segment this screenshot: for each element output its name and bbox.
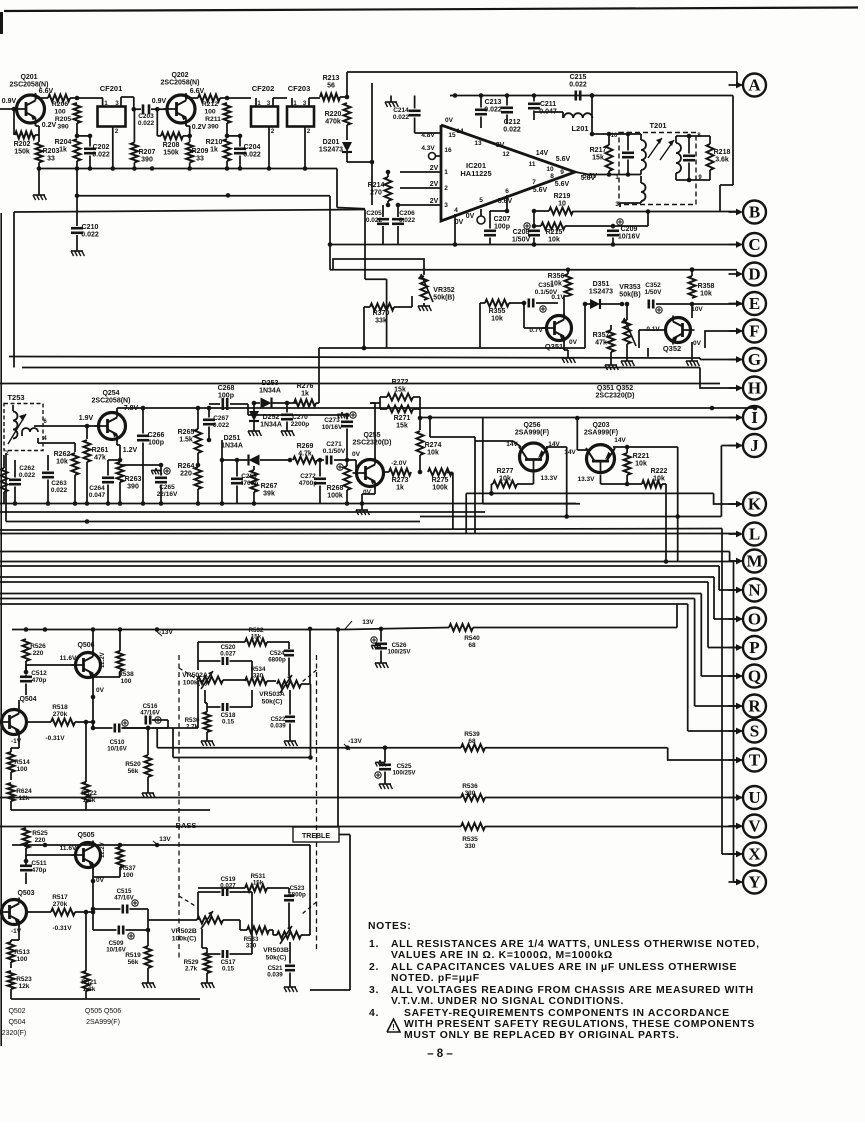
wire bus y383: [0, 383, 720, 385]
pot VR502B: [171, 911, 223, 942]
label Q505 Q506 types: [85, 1008, 121, 1026]
wire bus y566 to N: [0, 566, 743, 590]
ground R357: [605, 362, 618, 370]
wire D253: [252, 401, 296, 406]
wire R531: [198, 888, 289, 893]
svg-text:4.: 4.: [369, 1008, 379, 1019]
svg-text:8: 8: [550, 173, 554, 180]
wire bus y577 to O: [0, 577, 743, 619]
wire Q504 collector: [18, 700, 20, 708]
svg-text:F: F: [749, 322, 759, 341]
svg-text:2SA999(F): 2SA999(F): [584, 430, 618, 437]
resistor R267: [251, 470, 278, 498]
ground VR353: [621, 344, 634, 366]
wire R529: [206, 948, 208, 980]
wire T201 sec bot: [676, 179, 710, 181]
svg-text:Q254: Q254: [102, 390, 119, 397]
svg-text:C209: C209: [621, 226, 638, 233]
svg-text:3: 3: [444, 202, 448, 209]
svg-text:VR502B: VR502B: [171, 928, 197, 935]
svg-text:12.2V: 12.2V: [100, 842, 106, 858]
svg-text:C272: C272: [300, 473, 316, 480]
svg-text:Q506: Q506: [77, 642, 94, 649]
wire Q254 collector row: [117, 406, 757, 412]
resistor R220: [325, 103, 351, 126]
capacitor C264: [89, 458, 122, 504]
wire Q351 base: [524, 303, 546, 328]
wire Q504 emitter: [18, 736, 20, 748]
wire bus y521: [6, 519, 420, 524]
transistor Q506: [72, 651, 101, 680]
svg-text:2: 2: [444, 185, 448, 192]
text -0.31V b: [52, 925, 72, 932]
svg-text:2SC2058(N): 2SC2058(N): [92, 398, 131, 405]
notes text block: [368, 921, 760, 1041]
svg-text:Q503: Q503: [17, 890, 34, 897]
svg-text:5.6V: 5.6V: [498, 198, 513, 205]
resistor R204: [55, 139, 81, 161]
svg-text:-0.31V: -0.31V: [52, 925, 72, 932]
wire R514: [11, 748, 19, 780]
svg-text:5.6V: 5.6V: [533, 187, 548, 194]
svg-text:150k: 150k: [14, 149, 30, 156]
capacitor C517: [221, 950, 236, 973]
wire F hook: [705, 331, 743, 348]
ground Q255: [356, 507, 369, 515]
svg-text:100/25V: 100/25V: [387, 649, 411, 656]
svg-text:Q256: Q256: [523, 422, 540, 429]
text 0.7V: [529, 327, 543, 334]
svg-text:C211: C211: [540, 101, 556, 108]
svg-text:11.6V: 11.6V: [60, 655, 77, 662]
capacitor C526 elec: [371, 629, 412, 660]
svg-text:SAFETY-REQUIREMENTS COMPONENT: SAFETY-REQUIREMENTS COMPONENTS IN ACCORD…: [404, 1008, 730, 1019]
resistor R532: [245, 627, 267, 646]
svg-text:Q351 Q352: Q351 Q352: [597, 385, 633, 392]
svg-text:R526: R526: [30, 643, 46, 650]
svg-text:33: 33: [196, 156, 204, 163]
svg-text:220: 220: [33, 650, 44, 657]
svg-text:330: 330: [465, 843, 476, 850]
resistor R211: [205, 103, 230, 130]
svg-text:13.3V: 13.3V: [541, 475, 559, 482]
IC pin 14: [456, 128, 464, 135]
text 2V pin2: [430, 181, 439, 188]
svg-text:220: 220: [35, 837, 46, 844]
svg-text:R209: R209: [192, 148, 209, 155]
text 5.6V c: [555, 181, 570, 188]
dashed slant VR503A: [302, 655, 317, 950]
T253 tuning arrow: [8, 414, 26, 444]
svg-text:4.3V: 4.3V: [421, 145, 435, 152]
svg-text:R218: R218: [714, 149, 731, 156]
node R callout: [729, 695, 767, 718]
resistor R218: [707, 144, 731, 170]
svg-text:R213: R213: [323, 75, 340, 82]
svg-text:V: V: [748, 817, 761, 836]
svg-text:MUST ONLY BE REPLACED BY ORIGI: MUST ONLY BE REPLACED BY ORIGINAL PARTS.: [404, 1030, 679, 1041]
svg-text:R265: R265: [178, 429, 195, 436]
wire R264 down: [197, 489, 199, 504]
wire R358 top: [690, 267, 695, 276]
text 1.2V: [123, 447, 138, 454]
capacitor C351: [529, 282, 558, 308]
svg-text:ALL CAPACITANCES VALUES ARE I: ALL CAPACITANCES VALUES ARE IN μF UNLESS…: [391, 962, 737, 973]
svg-text:7: 7: [532, 179, 536, 186]
svg-text:R203: R203: [43, 148, 60, 155]
capacitor C515 series: [114, 888, 134, 914]
svg-text:3.6k: 3.6k: [715, 157, 729, 164]
IC pin 8: [550, 173, 554, 180]
svg-text:CF203: CF203: [288, 84, 311, 93]
text pin1 T201: [615, 175, 619, 181]
svg-text:R211: R211: [205, 116, 221, 123]
capacitor C516 series: [140, 703, 160, 725]
svg-text:!: !: [392, 1023, 395, 1032]
svg-text:0.15: 0.15: [222, 966, 235, 973]
svg-text:R264: R264: [178, 463, 195, 470]
IC pin 12: [502, 151, 510, 158]
wire R206 to node: [70, 96, 103, 101]
svg-text:C205: C205: [366, 210, 382, 217]
wire C516 right: [152, 720, 168, 728]
svg-text:C269: C269: [241, 473, 257, 480]
wire R525 down: [24, 848, 29, 863]
pot VR502A: [182, 671, 223, 689]
svg-text:K: K: [748, 495, 762, 514]
wire C516: [93, 717, 161, 728]
text 11.6V Q505: [60, 845, 77, 852]
svg-text:R217: R217: [590, 147, 607, 154]
resistor R521: [81, 971, 97, 993]
svg-text:0.15: 0.15: [222, 719, 235, 726]
wire R219: [532, 209, 651, 226]
svg-text:C212: C212: [504, 119, 521, 126]
svg-text:Q352: Q352: [663, 344, 681, 353]
wire R211 down: [225, 123, 230, 138]
resistor R215: [541, 223, 565, 244]
svg-text:10k: 10k: [491, 316, 503, 323]
svg-text:4: 4: [454, 207, 458, 214]
text 5.6V b: [583, 173, 598, 180]
wire C208 top: [532, 242, 537, 247]
resistor R213: [320, 75, 340, 101]
svg-text:16: 16: [444, 147, 452, 154]
capacitor C210: [71, 169, 99, 249]
svg-text:390: 390: [141, 157, 153, 164]
resistor R535: [461, 823, 485, 850]
transistor Q255: [353, 458, 384, 489]
capacitor C520: [220, 644, 236, 665]
svg-text:R513: R513: [14, 949, 30, 956]
svg-text:C267: C267: [213, 415, 229, 422]
node Y callout: [729, 871, 767, 894]
wire lower left bus: [11, 998, 200, 1000]
text -1V Q503: [11, 928, 22, 935]
svg-text:1k: 1k: [301, 391, 309, 398]
wire R517: [27, 910, 95, 915]
svg-text:1: 1: [444, 169, 448, 176]
wire R215: [532, 224, 616, 229]
svg-text:R262: R262: [54, 451, 71, 458]
text -2.0V: [391, 460, 407, 467]
ground R519: [142, 980, 155, 988]
wire R530: [205, 703, 207, 738]
svg-text:R539: R539: [464, 731, 480, 738]
svg-text:0.022: 0.022: [243, 152, 261, 159]
wire bus y512: [0, 511, 485, 513]
resistor R268: [327, 466, 351, 500]
svg-text:C203: C203: [138, 113, 154, 120]
resistor R518: [51, 704, 75, 726]
transistor Q203: [586, 445, 615, 475]
resistor R517: [51, 894, 75, 916]
resistor R522: [81, 782, 97, 804]
T201 tuning arrows: [648, 138, 674, 160]
svg-text:C210: C210: [82, 224, 99, 231]
label Q256: [515, 422, 549, 437]
wire emitter bus: [37, 166, 337, 171]
text 2V pin3: [430, 198, 439, 205]
text 0.1V Q352: [646, 326, 660, 333]
svg-text:15k: 15k: [592, 155, 604, 162]
wire bus y503 right: [483, 418, 580, 504]
text 10V Q352: [691, 306, 703, 313]
wire Q255 emitter: [362, 487, 375, 507]
capacitor C202: [84, 134, 110, 169]
svg-text:VALUES ARE IN Ω. K=1000Ω, M=: VALUES ARE IN Ω. K=1000Ω, M=1000kΩ: [391, 950, 613, 961]
text 5.6V apex: [581, 175, 596, 182]
svg-text:6.6V: 6.6V: [39, 88, 54, 95]
pin2 CF203: [305, 127, 311, 169]
svg-text:470p: 470p: [32, 867, 47, 874]
wire R209 down: [189, 163, 191, 169]
text 7.8V: [124, 405, 139, 412]
wire VR503B right: [301, 845, 310, 935]
resistor R262: [54, 451, 79, 475]
capacitor C352: [645, 282, 663, 309]
resistor R203: [36, 143, 60, 163]
label Q352: [663, 344, 681, 353]
wire R212 to node: [220, 96, 251, 101]
svg-text:14V: 14V: [564, 449, 576, 456]
text pin10 T201: [611, 133, 618, 139]
text pin6 T253: [43, 419, 47, 425]
capacitor C523: [284, 885, 306, 900]
pin16 circle: [429, 153, 442, 160]
wire Q256 emitter route: [546, 447, 569, 519]
svg-text:VR503A: VR503A: [259, 691, 285, 698]
wire R540 right: [473, 604, 677, 628]
svg-text:VR353: VR353: [619, 284, 641, 291]
svg-text:5: 5: [479, 197, 483, 204]
text pin8 T201: [697, 133, 701, 139]
wire node136b: [227, 135, 240, 137]
svg-text:-0.31V: -0.31V: [45, 735, 65, 742]
svg-text:Q505 Q506: Q505 Q506: [85, 1008, 121, 1015]
wire right outline T201: [720, 96, 733, 213]
wire R274 down: [418, 455, 423, 474]
wire R524 down: [10, 801, 12, 810]
node E callout: [729, 292, 767, 315]
pot VR503B: [263, 926, 301, 961]
wire Q351 collector: [564, 296, 568, 316]
wire R210: [226, 161, 228, 169]
node P callout: [729, 636, 767, 659]
wire R522: [84, 720, 89, 810]
wire Q505 base: [26, 855, 75, 861]
svg-text:0.022: 0.022: [213, 422, 230, 429]
svg-text:100k: 100k: [327, 493, 343, 500]
svg-text:C204: C204: [244, 144, 261, 151]
svg-text:C273: C273: [324, 417, 340, 424]
wire R273: [383, 471, 389, 473]
svg-text:R267: R267: [261, 483, 278, 490]
wire bus y533 full: [0, 533, 741, 535]
resistor R222: [642, 468, 667, 488]
wire R214 top: [386, 170, 391, 177]
wire bus y593 to Q: [0, 594, 743, 677]
svg-text:0V: 0V: [445, 117, 454, 124]
svg-text:4700p: 4700p: [240, 480, 258, 487]
IC pin 9: [560, 169, 564, 176]
pot VR503A: [259, 675, 301, 705]
wire D351 left node: [583, 302, 588, 348]
svg-text:10k: 10k: [635, 461, 647, 468]
resistor R355: [485, 300, 509, 323]
wire T hook: [668, 748, 743, 760]
wire bus A top: [347, 71, 737, 73]
svg-text:100: 100: [17, 956, 28, 963]
svg-text:47/16V: 47/16V: [114, 895, 134, 902]
wire C518: [207, 690, 252, 707]
wire R203 to gnd bus: [38, 163, 40, 169]
node M callout: [729, 550, 767, 573]
svg-text:R519: R519: [125, 952, 141, 959]
svg-text:470k: 470k: [325, 119, 341, 126]
svg-text:0.022: 0.022: [138, 120, 155, 127]
svg-text:0V: 0V: [455, 219, 464, 226]
svg-text:J: J: [750, 436, 759, 455]
T201 primary cap: [622, 132, 634, 177]
svg-text:6800p: 6800p: [288, 892, 306, 899]
wire Q202 collector bus: [186, 95, 198, 98]
svg-text:Q203: Q203: [592, 422, 609, 429]
svg-text:T: T: [749, 751, 761, 770]
text pin9 T201: [698, 175, 702, 181]
svg-text:2.: 2.: [369, 962, 379, 973]
text -13V arrow: [344, 738, 363, 750]
svg-text:1/50V: 1/50V: [512, 237, 531, 244]
text 6.6V Q202: [190, 88, 205, 95]
page number -8-: [427, 1048, 453, 1060]
svg-text:100: 100: [204, 108, 216, 115]
svg-text:1N34A: 1N34A: [221, 443, 243, 450]
label Q502 Q504: [2, 1008, 27, 1037]
svg-text:100p: 100p: [494, 224, 510, 231]
svg-text:C208: C208: [513, 229, 530, 236]
svg-text:13V: 13V: [159, 836, 171, 843]
svg-text:47k: 47k: [94, 455, 106, 462]
wire R537: [91, 843, 120, 878]
wire R217 bottom: [608, 171, 610, 175]
ground top IC: [385, 96, 398, 108]
svg-text:10k: 10k: [56, 459, 68, 466]
diode D201: [319, 139, 352, 154]
svg-text:D: D: [748, 265, 760, 284]
svg-text:11: 11: [529, 161, 536, 168]
text 13.3V Q203: [578, 476, 596, 483]
svg-text:R276: R276: [297, 383, 314, 390]
svg-text:C: C: [748, 235, 760, 254]
svg-text:T253: T253: [7, 393, 24, 402]
svg-text:R540: R540: [464, 635, 480, 642]
resistor R265: [178, 429, 202, 453]
T201 secondary cap: [683, 134, 695, 183]
dashed slant VR502A: [179, 668, 197, 907]
resistor R539: [461, 731, 485, 751]
capacitor C272: [299, 458, 326, 504]
capacitor C204: [234, 134, 261, 169]
svg-text:10: 10: [558, 201, 566, 208]
capacitor C511: [20, 860, 47, 884]
wire R275 right: [447, 473, 453, 529]
wire input to Q201 base: [0, 107, 17, 112]
wire R532: [198, 642, 289, 661]
label Q255: [353, 432, 392, 447]
svg-text:NOTES:: NOTES:: [368, 921, 411, 932]
svg-text:0.022: 0.022: [51, 487, 68, 494]
svg-text:10k: 10k: [653, 476, 665, 483]
text 0.9V Q202: [152, 98, 167, 105]
wire K hook: [714, 493, 743, 504]
pin1 CF202: [256, 98, 261, 107]
wire D351: [585, 302, 624, 307]
resistor R536: [461, 783, 485, 801]
wire Q256 collector route: [428, 415, 521, 533]
capacitor C509 series: [106, 926, 126, 954]
svg-text:14V: 14V: [536, 150, 549, 157]
wire R277 left: [489, 484, 494, 496]
wire C265 top: [120, 463, 163, 470]
wire VR502A wiper down: [204, 690, 206, 703]
wire R357: [610, 325, 612, 362]
svg-text:R210: R210: [206, 139, 223, 146]
svg-text:13: 13: [474, 140, 482, 147]
wire pin6 up: [490, 195, 509, 221]
text 5.6V a: [556, 156, 571, 163]
svg-text:R214: R214: [368, 182, 385, 189]
wire bus y598 to R: [0, 599, 743, 707]
wire R222 route: [662, 484, 668, 564]
ground C522: [284, 738, 297, 746]
pin2 CF202: [269, 127, 275, 169]
svg-text:D251: D251: [224, 435, 241, 442]
svg-text:Q351: Q351: [545, 342, 563, 351]
wire Q352 collector up: [691, 304, 693, 318]
wire R539 line: [485, 747, 668, 749]
svg-text:1S2473: 1S2473: [319, 147, 343, 154]
svg-text:47/16V: 47/16V: [140, 710, 160, 717]
wire VR352 frame: [333, 259, 424, 275]
label Q202: [161, 72, 200, 87]
wire K bus: [466, 491, 713, 533]
filter CF201: [98, 84, 126, 127]
wire Q255 base: [347, 460, 356, 473]
svg-text:R268: R268: [327, 485, 344, 492]
capacitor C206: [392, 203, 416, 245]
text pin3 T201: [615, 202, 619, 208]
